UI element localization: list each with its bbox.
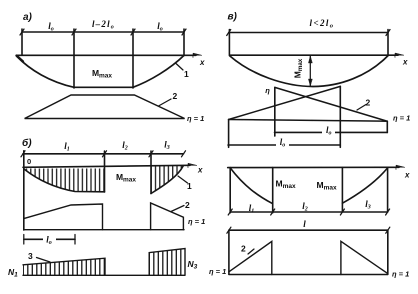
dimension line top (a) [22,31,184,33]
l dimension line (br) [229,229,388,231]
label 1 (b) [187,181,192,191]
left end vertical (v X diagram) [228,120,230,148]
right edge vertical of left region (b) [104,151,106,192]
svg-text:η: η [265,86,270,95]
x axis arrowhead (v) [395,53,404,57]
right end vertical (v X diagram) [386,121,388,132]
label eta=1 (v) [393,114,410,123]
svg-text:2: 2 [366,98,371,108]
upper l0 dim line (v) [275,131,388,133]
svg-text:N1: N1 [8,267,18,279]
Mmax label (a) [92,68,112,80]
right triangle (br) [341,241,388,274]
x axis (a) [17,54,197,56]
label l3 (mr) [365,199,371,211]
curve 1 start flourish (a) [17,56,24,62]
svg-text:η = 1: η = 1 [393,114,410,123]
left N hatched region (b) [23,258,105,275]
label l<2l0 (v) [310,18,335,30]
label N3 (b) [188,259,198,271]
leader for 2 (b) [171,206,184,212]
label b) [22,137,32,149]
label N1 (b) [8,267,18,279]
left hatched moment region (b) [24,169,105,192]
baseline (br) [229,274,388,276]
left edge vertical of right region (b) [150,151,152,194]
svg-text:1: 1 [187,181,192,191]
label 2 (br) [241,244,246,254]
svg-text:Mmax: Mmax [116,172,136,184]
svg-text:l3: l3 [164,140,170,152]
label l (br) [303,219,306,229]
x axis (mr) [228,166,399,168]
x axis label (v) [402,58,408,67]
svg-text:l<2lo: l<2lo [310,18,335,30]
label eta=1 left (br) [209,267,226,276]
X diagram vertical at 341 (v) [339,86,341,147]
svg-text:0: 0 [27,157,31,166]
label l1 (mr) [249,203,255,215]
x axis label (a) [199,58,205,67]
svg-text:η = 1: η = 1 [209,267,226,276]
right N hatched region (b) [149,249,185,276]
dim line (mr) [230,211,387,213]
label 3 (b) [28,251,33,261]
trapezoid curve 2 (a) [25,95,185,119]
svg-text:N3: N3 [188,259,198,271]
Mmax arrow line (v) [309,56,311,86]
svg-text:2: 2 [241,244,246,254]
svg-text:l1: l1 [249,203,255,215]
ticks (mr) [228,209,389,215]
left vertical (v) [228,30,230,56]
svg-text:l1: l1 [64,141,70,153]
svg-text:x: x [199,58,205,67]
leader for curve 2 (a) [159,99,172,106]
svg-text:η = 1: η = 1 [187,114,204,123]
label 0 (b) [27,157,31,166]
leader for curve 1 (b) [178,176,188,183]
Mmax label left (mr) [276,179,296,191]
X diagram vertical at 275 (v) [274,87,276,136]
label l0 upper (v) [322,125,335,137]
svg-text:l2: l2 [302,201,308,213]
x axis label (b) [197,166,203,175]
label 1 (a) [184,69,189,79]
vertical at x=133 (a) [132,29,134,88]
svg-text:lo: lo [48,21,54,33]
left vertical (br) [228,230,230,274]
svg-text:б): б) [22,137,32,149]
svg-text:η = 1: η = 1 [392,270,409,279]
right vertical (br) [387,230,389,274]
x axis label (mr) [404,171,410,180]
lower l0 dim line (v) [228,144,340,146]
dimension line top (b) [23,153,184,155]
label 2 (b) [185,200,190,210]
X diagram baseline (v) [229,120,388,122]
leader for 2 (v) [357,105,366,111]
svg-text:в): в) [228,12,238,23]
label eta=1 (b) [188,217,205,226]
svg-text:Mmax: Mmax [276,179,296,191]
X diagram slant line right-to-left (v) [275,87,388,121]
reinforcement shape 2 left (b) [24,204,103,230]
label l1 (b) [64,141,70,153]
svg-text:3: 3 [28,251,33,261]
moment parabola (v) [230,56,388,87]
svg-text:Mmax: Mmax [293,58,305,78]
svg-text:l2: l2 [122,140,128,152]
reinforcement shape 2 right (b) [151,203,184,230]
svg-text:x: x [197,166,203,175]
right hatched moment region (b) [151,166,183,194]
Mmax label (b) [116,172,136,184]
label l-2l0 (a) [92,19,115,31]
leader for curve 1 (a) [176,64,183,71]
svg-text:Mmax: Mmax [92,68,112,80]
svg-text:lo: lo [157,21,163,33]
moment curve 1 (a) [17,55,184,87]
x axis arrowhead (mr) [396,165,405,169]
label l3 (b) [164,140,170,152]
label l2 (b) [122,140,128,152]
x axis (v) [230,54,398,56]
tick marks dimension line (a) [20,29,186,35]
Mmax label right (mr) [317,180,337,192]
svg-text:2: 2 [185,200,190,210]
Mmax rotated label (v) [293,58,305,78]
X diagram slant line left-to-right (v) [229,86,341,119]
vertical left end (a) [21,29,23,55]
svg-text:η = 1: η = 1 [188,217,205,226]
svg-text:l3: l3 [365,199,371,211]
eta label (v) [265,86,270,95]
label eta=1 right (br) [392,270,409,279]
label l0 left (a) [48,21,54,33]
ticks dimension line (v) [227,30,390,36]
long left vertical (b) [23,151,25,230]
left curved region (mr) [229,168,231,213]
ticks l dim (br) [227,227,390,233]
x axis (b) [23,165,190,167]
label l0 right (a) [157,21,163,33]
dimension line (v) [229,32,388,34]
svg-text:x: x [402,58,408,67]
leader for 3 (b) [37,258,51,263]
label a) [23,12,33,23]
N baseline (b) [23,274,185,276]
ticks dimension line (b) [21,151,186,157]
vertical right end (a) [183,29,185,56]
label l0 (b) [43,234,56,247]
label 2 (v) [366,98,371,108]
vertical at x=74 (a) [73,29,75,88]
baseline (b middle) [24,229,184,231]
label l0 lower (v) [276,137,289,149]
svg-text:Mmax: Mmax [317,180,337,192]
svg-text:1: 1 [184,69,189,79]
label v) [228,12,238,23]
l0 dimension line (b) [24,238,75,240]
leader for 2 (br) [248,249,254,254]
svg-text:а): а) [23,12,33,23]
right curved region (mr) [341,168,343,211]
l0 dim ticks (b) [24,235,75,245]
label 2 (a) [173,91,178,101]
right vertical (v) [387,30,389,56]
x axis arrowhead (a) [193,53,202,57]
label l2 (mr) [302,201,308,213]
left triangle (br) [229,241,272,274]
svg-text:l–2lo: l–2lo [92,19,115,31]
label eta=1 (a) [187,114,204,123]
svg-text:2: 2 [173,91,178,101]
x axis arrowhead (b) [188,163,197,167]
svg-text:l: l [303,219,306,229]
svg-text:x: x [404,171,410,180]
